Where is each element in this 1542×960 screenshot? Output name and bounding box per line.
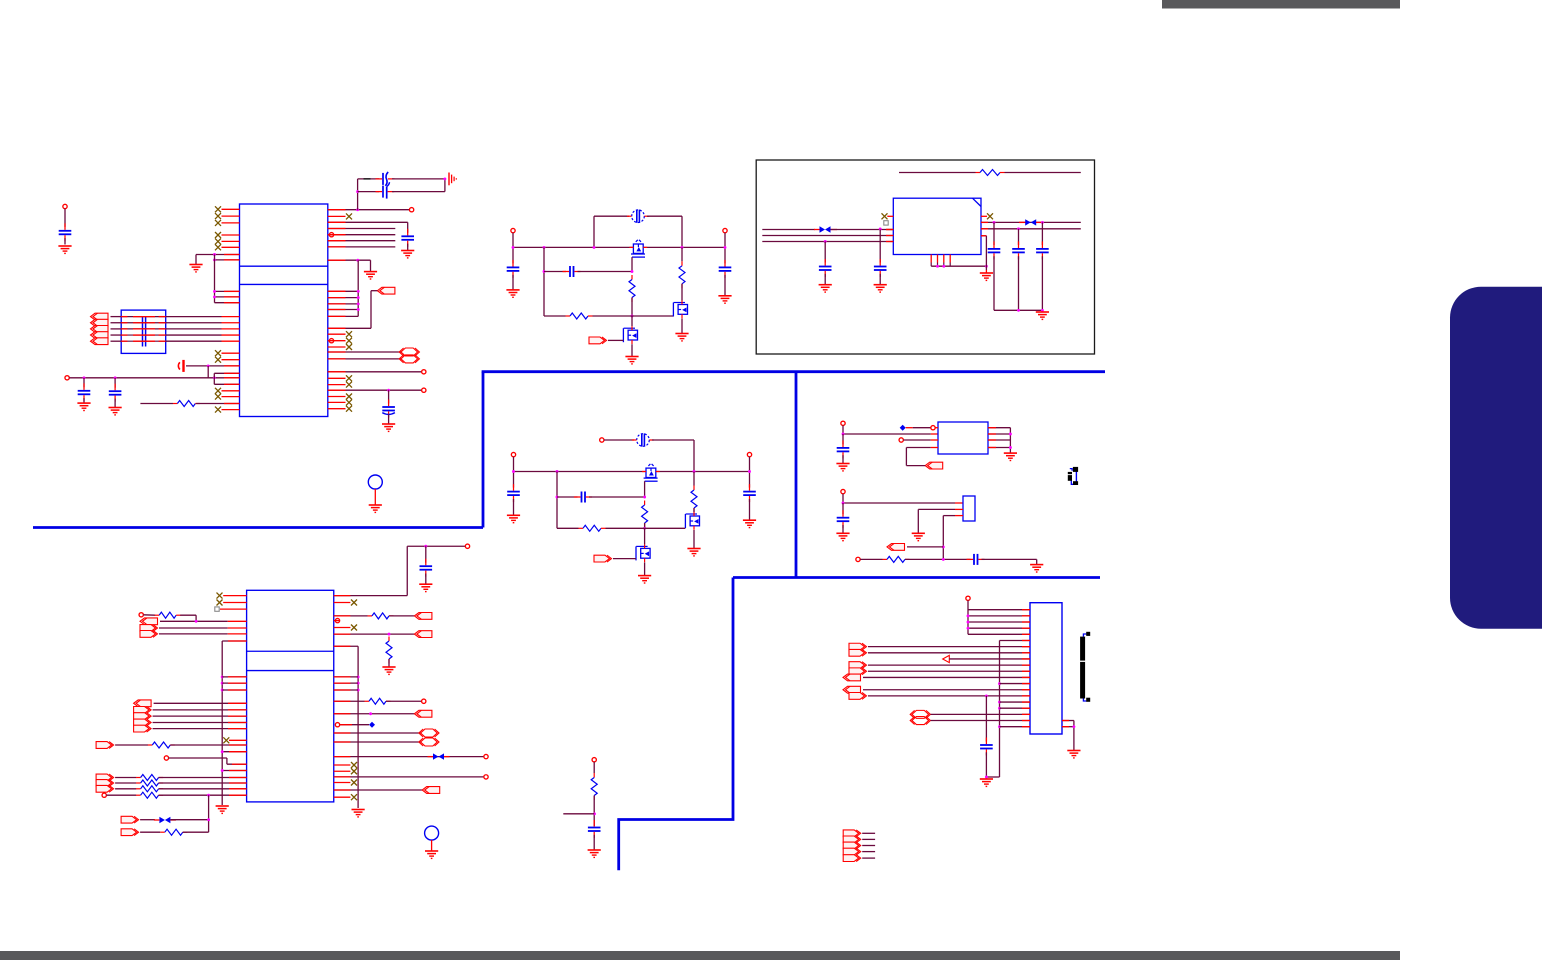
ground <box>369 505 382 512</box>
wire <box>111 316 122 318</box>
port row 13 <box>843 686 861 693</box>
pin stub <box>1022 658 1030 660</box>
power rail wire <box>513 246 725 248</box>
wire <box>831 229 894 231</box>
junction <box>967 614 970 617</box>
wire <box>593 796 595 827</box>
polarity mark <box>215 607 219 611</box>
wire <box>153 728 247 730</box>
pin stub <box>1022 646 1030 648</box>
output terminal <box>723 228 727 232</box>
pin stub <box>981 235 986 237</box>
pin stub <box>1022 726 1030 728</box>
polarized cap CE1 <box>178 360 183 372</box>
U1 pin stub <box>222 316 240 318</box>
U1 pin wire <box>328 358 401 360</box>
pin bubble <box>329 233 333 237</box>
MOSFET Q2 <box>673 301 687 319</box>
bundle bus vertical <box>357 260 359 316</box>
junction <box>387 389 390 392</box>
wire <box>693 472 695 486</box>
bidir port <box>399 348 419 356</box>
pin bubble <box>335 618 339 622</box>
no-connect X <box>346 406 352 412</box>
pin stub <box>1022 639 1030 641</box>
port <box>96 785 114 792</box>
wire <box>371 290 377 292</box>
U1 pin bus wire <box>328 228 396 230</box>
wire <box>843 502 955 504</box>
U1 pin wire <box>196 254 240 256</box>
no-connect X <box>215 407 221 413</box>
MOSFET Q1 <box>629 240 647 257</box>
ground <box>1036 312 1049 319</box>
junction <box>221 675 224 678</box>
diode D1 <box>627 210 649 223</box>
wire <box>903 439 930 441</box>
pin stub <box>328 234 346 236</box>
ground <box>507 515 520 522</box>
junction <box>748 470 751 473</box>
wire <box>631 257 633 271</box>
ground <box>425 851 438 858</box>
ground <box>382 667 395 674</box>
U1 pin wire <box>328 297 358 299</box>
no-connect X <box>351 762 357 768</box>
wire <box>388 414 390 424</box>
wire <box>578 271 633 273</box>
terminal node <box>65 376 69 380</box>
J1 pin wire <box>868 695 1030 697</box>
wire <box>942 516 944 560</box>
wire <box>407 222 409 233</box>
U6 right pin wire <box>988 433 1010 435</box>
capacitor C22 <box>988 241 1001 259</box>
U1 left pin (no connect) <box>222 359 240 361</box>
wire <box>993 256 995 310</box>
bidir port <box>419 738 439 746</box>
capacitor C41 <box>588 820 601 838</box>
ground <box>1030 565 1043 572</box>
J1 pin wire <box>1000 726 1031 728</box>
wire <box>693 530 695 549</box>
U1 right pin (no connect) <box>328 396 346 398</box>
wire <box>140 403 173 405</box>
J1 pin wire <box>968 621 1030 623</box>
U2 pin wire <box>334 615 368 617</box>
wire <box>1073 721 1075 750</box>
U1 pin stub <box>222 322 240 324</box>
stub <box>906 427 913 429</box>
U2 right pin (no connect) <box>334 764 351 766</box>
IC U7 <box>963 496 975 521</box>
pin stub <box>1022 627 1030 629</box>
resistor <box>136 786 163 792</box>
pin stub <box>988 439 996 441</box>
net tie diamond <box>900 425 906 431</box>
junction <box>842 502 845 505</box>
pin stub <box>328 309 346 311</box>
U1 pin wire <box>328 309 358 311</box>
U1 pin wire <box>328 259 371 261</box>
wire <box>166 322 222 324</box>
wire <box>444 179 446 192</box>
wire <box>593 315 674 317</box>
resistor R22 <box>160 829 187 835</box>
port stack <box>134 725 152 732</box>
power rail wire <box>514 471 750 473</box>
U2 pin wire <box>334 789 422 791</box>
wire <box>913 427 931 429</box>
no-connect X <box>351 768 357 774</box>
port <box>140 631 158 638</box>
wire <box>115 744 148 746</box>
resistor Rg <box>642 501 648 528</box>
junction <box>1072 725 1075 728</box>
pin stub <box>886 241 893 243</box>
terminal <box>422 370 426 374</box>
wire <box>824 274 826 285</box>
wire <box>681 247 683 261</box>
FL1 through wire <box>121 340 166 342</box>
U1 left pin 1 (no connect) <box>222 208 240 210</box>
pin stub <box>1022 720 1030 722</box>
J1 pin wire <box>968 609 1030 611</box>
ground <box>874 285 887 292</box>
wire <box>631 298 633 317</box>
J1 pin wire <box>968 633 1030 635</box>
U2 pin wire <box>222 689 246 691</box>
wire <box>160 620 228 622</box>
wire <box>114 399 116 408</box>
ground <box>506 290 519 297</box>
wire <box>681 216 683 247</box>
wire <box>370 291 372 329</box>
wire <box>159 633 228 635</box>
input wire B <box>762 235 893 237</box>
capacitor Cc <box>574 492 592 503</box>
U1 left pin (no connect) <box>222 390 240 392</box>
wire <box>652 439 694 441</box>
pin stub <box>328 246 346 248</box>
wire <box>114 378 116 388</box>
section border vertical mid <box>795 372 798 578</box>
junction <box>221 689 224 692</box>
crystal capacitor C5 <box>376 182 395 198</box>
wire <box>111 322 122 324</box>
U2 pin wire <box>334 633 415 635</box>
section border horizontal top <box>482 370 1105 373</box>
wire <box>985 752 987 777</box>
U1 pin wire <box>328 315 358 317</box>
capacitor C6 <box>401 229 414 247</box>
wire <box>593 835 595 850</box>
junction <box>998 725 1001 728</box>
capacitor C20 <box>874 259 887 277</box>
wire <box>749 472 751 488</box>
ground <box>836 464 849 471</box>
junction <box>942 265 945 268</box>
terminal <box>422 388 426 392</box>
MOSFET Q1 <box>642 464 660 481</box>
J1 pin wire <box>868 646 1030 648</box>
wire <box>993 222 995 245</box>
wire <box>111 340 122 342</box>
J1 pin wire <box>868 664 1030 666</box>
port stack row 1 <box>843 830 861 837</box>
wire <box>557 496 578 498</box>
FL1 center element <box>145 317 147 347</box>
port P3 <box>91 326 109 333</box>
wire <box>543 247 545 316</box>
junction <box>942 558 945 561</box>
ground <box>638 576 651 583</box>
terminal <box>139 613 143 617</box>
U5 left pin (no connect) <box>887 215 893 217</box>
shield circle symbol <box>425 826 439 840</box>
wire <box>594 215 629 217</box>
U2 left pin (no connect) <box>223 595 246 597</box>
no-connect X <box>987 213 993 219</box>
wire <box>512 233 514 248</box>
wire <box>606 527 686 529</box>
pin stub <box>1022 695 1030 697</box>
wire <box>544 271 566 273</box>
port <box>96 774 114 781</box>
diode pair D5 <box>820 226 831 232</box>
wire <box>195 615 197 621</box>
wire <box>644 562 646 575</box>
wire <box>604 439 634 441</box>
U1 pin wire <box>328 371 422 373</box>
output terminal <box>747 452 751 456</box>
junction <box>842 433 845 436</box>
no-connect X <box>215 357 221 363</box>
U2 pin wire <box>222 770 246 772</box>
no-connect X <box>346 213 352 219</box>
junction <box>643 527 646 530</box>
wire <box>843 433 931 435</box>
U1 pin wire <box>328 290 358 292</box>
direction marker <box>943 655 950 662</box>
junction <box>985 776 988 779</box>
wire <box>681 319 683 334</box>
main IC U1 (top-left controller) <box>240 204 328 417</box>
no-connect X <box>215 394 221 400</box>
J1 pin wire <box>968 627 1030 629</box>
stubs <box>814 229 820 231</box>
pin stub <box>229 782 247 784</box>
U1 left pin 5 (no connect) <box>222 240 240 242</box>
ground <box>625 357 638 364</box>
pin stub <box>988 433 996 435</box>
U1 left pin 3 (no connect) <box>222 222 240 224</box>
wire <box>207 366 209 378</box>
wire <box>608 339 623 341</box>
terminal <box>841 421 845 425</box>
junction <box>213 295 216 298</box>
resistor Rf <box>579 525 606 531</box>
pin stub <box>1022 615 1030 617</box>
U2 right pin (no connect) <box>334 770 351 772</box>
wire <box>153 722 247 724</box>
shield circle symbol <box>368 475 382 489</box>
wire <box>357 179 359 210</box>
pin stub <box>328 297 346 299</box>
pin stub <box>334 682 351 684</box>
pin stub <box>1022 676 1030 678</box>
no-connect X <box>217 600 223 606</box>
diode pair D20 <box>159 817 170 823</box>
junction <box>879 227 882 230</box>
port stack row 3 <box>843 842 861 849</box>
wire <box>724 233 726 248</box>
wire <box>170 744 246 746</box>
port <box>96 742 114 749</box>
junction <box>998 707 1001 710</box>
wire <box>681 284 683 301</box>
bus vertical <box>208 795 210 832</box>
wire <box>985 696 987 742</box>
gate control port <box>589 337 607 344</box>
wire <box>644 481 646 497</box>
J1 pin wire <box>949 658 1030 660</box>
wire <box>544 315 566 317</box>
U2 pin wire <box>222 640 246 642</box>
wire <box>1041 222 1043 245</box>
junction <box>693 470 696 473</box>
junction <box>631 315 634 318</box>
junction <box>967 621 970 624</box>
junction <box>936 265 939 268</box>
junction <box>985 265 988 268</box>
section border polyline left/middle <box>33 526 483 529</box>
MOSFET Q3 <box>623 326 637 344</box>
junction <box>593 812 596 815</box>
port <box>422 787 440 794</box>
U2 pin wire <box>334 776 484 778</box>
resistor <box>136 775 163 781</box>
section border horizontal mid-right <box>733 576 1100 579</box>
U5 bottom pin <box>949 255 951 263</box>
pin stub <box>955 508 963 510</box>
wire <box>906 447 930 449</box>
no-connect X <box>346 394 352 400</box>
U2 pin wire <box>334 756 484 758</box>
section border right-bottom step <box>619 578 733 871</box>
U1 right pin (no connect) <box>328 333 346 335</box>
no-connect X <box>346 382 352 388</box>
port <box>121 816 139 823</box>
stubs <box>154 819 160 821</box>
input terminal <box>511 452 515 456</box>
U1 left pin 4 (no connect) <box>222 234 240 236</box>
wire <box>106 794 136 796</box>
no-connect X <box>215 238 221 244</box>
ground <box>77 403 90 410</box>
port stack row1 <box>134 700 152 707</box>
junction <box>512 246 515 249</box>
junction <box>967 627 970 630</box>
wire <box>153 715 247 717</box>
capacitor C3 <box>109 384 122 402</box>
pin stub <box>1022 701 1030 703</box>
resistor R10 <box>976 170 1005 176</box>
U2 right pin (no connect) <box>334 602 351 604</box>
junction <box>357 296 360 299</box>
no-connect X <box>215 232 221 238</box>
U1 left pin (no connect) <box>222 352 240 354</box>
J1 pin wire <box>931 720 1030 722</box>
capacitor C2 <box>78 383 91 401</box>
wire <box>724 247 726 263</box>
U1 pin wire <box>328 209 410 211</box>
port P5 <box>91 338 109 345</box>
FL1 through wire <box>121 334 166 336</box>
no-connect X <box>346 344 352 350</box>
wire <box>166 340 222 342</box>
U5 bottom pin <box>937 255 939 263</box>
pin stub <box>228 728 247 730</box>
input wire A <box>762 229 815 231</box>
pin stub <box>931 433 938 435</box>
U1 right pin (no connect) <box>328 346 346 348</box>
wire <box>905 448 907 466</box>
capacitor C31 <box>837 510 850 528</box>
ground <box>819 285 832 292</box>
junction <box>998 682 1001 685</box>
U2 pin wire <box>334 700 365 702</box>
bottom gray footer bar <box>0 951 1400 960</box>
capacitor Cin <box>507 484 520 502</box>
wire <box>907 546 943 548</box>
wire <box>425 546 427 562</box>
resistor Rf <box>566 313 593 319</box>
wire <box>159 777 247 779</box>
wire <box>406 546 408 595</box>
wire <box>981 235 986 237</box>
junction <box>213 253 216 256</box>
section border vertical <box>482 372 485 528</box>
pin stub <box>931 447 938 449</box>
terminal <box>164 756 168 760</box>
wire <box>879 230 881 263</box>
U1 pin bus wire <box>328 234 396 236</box>
wire <box>918 508 955 510</box>
wire <box>111 328 122 330</box>
wire <box>196 403 239 405</box>
capacitor C7 <box>382 400 395 418</box>
port <box>96 780 114 787</box>
U2 right pin (no connect) <box>334 796 351 798</box>
port stack <box>134 707 152 714</box>
net tie diamond <box>369 722 375 728</box>
wire <box>749 499 751 520</box>
junction <box>543 270 546 273</box>
gate control port <box>594 555 612 562</box>
junction <box>356 259 359 262</box>
pin stub <box>229 788 247 790</box>
stub wire <box>862 832 875 834</box>
resistor R40 <box>591 773 597 800</box>
wire <box>183 831 209 833</box>
main IC U2 (bottom-left controller) <box>247 590 334 802</box>
wire <box>1018 256 1020 310</box>
U1 pin bus wire <box>328 240 396 242</box>
wire <box>982 558 1037 560</box>
pin stub <box>328 315 346 317</box>
ground <box>419 584 432 591</box>
